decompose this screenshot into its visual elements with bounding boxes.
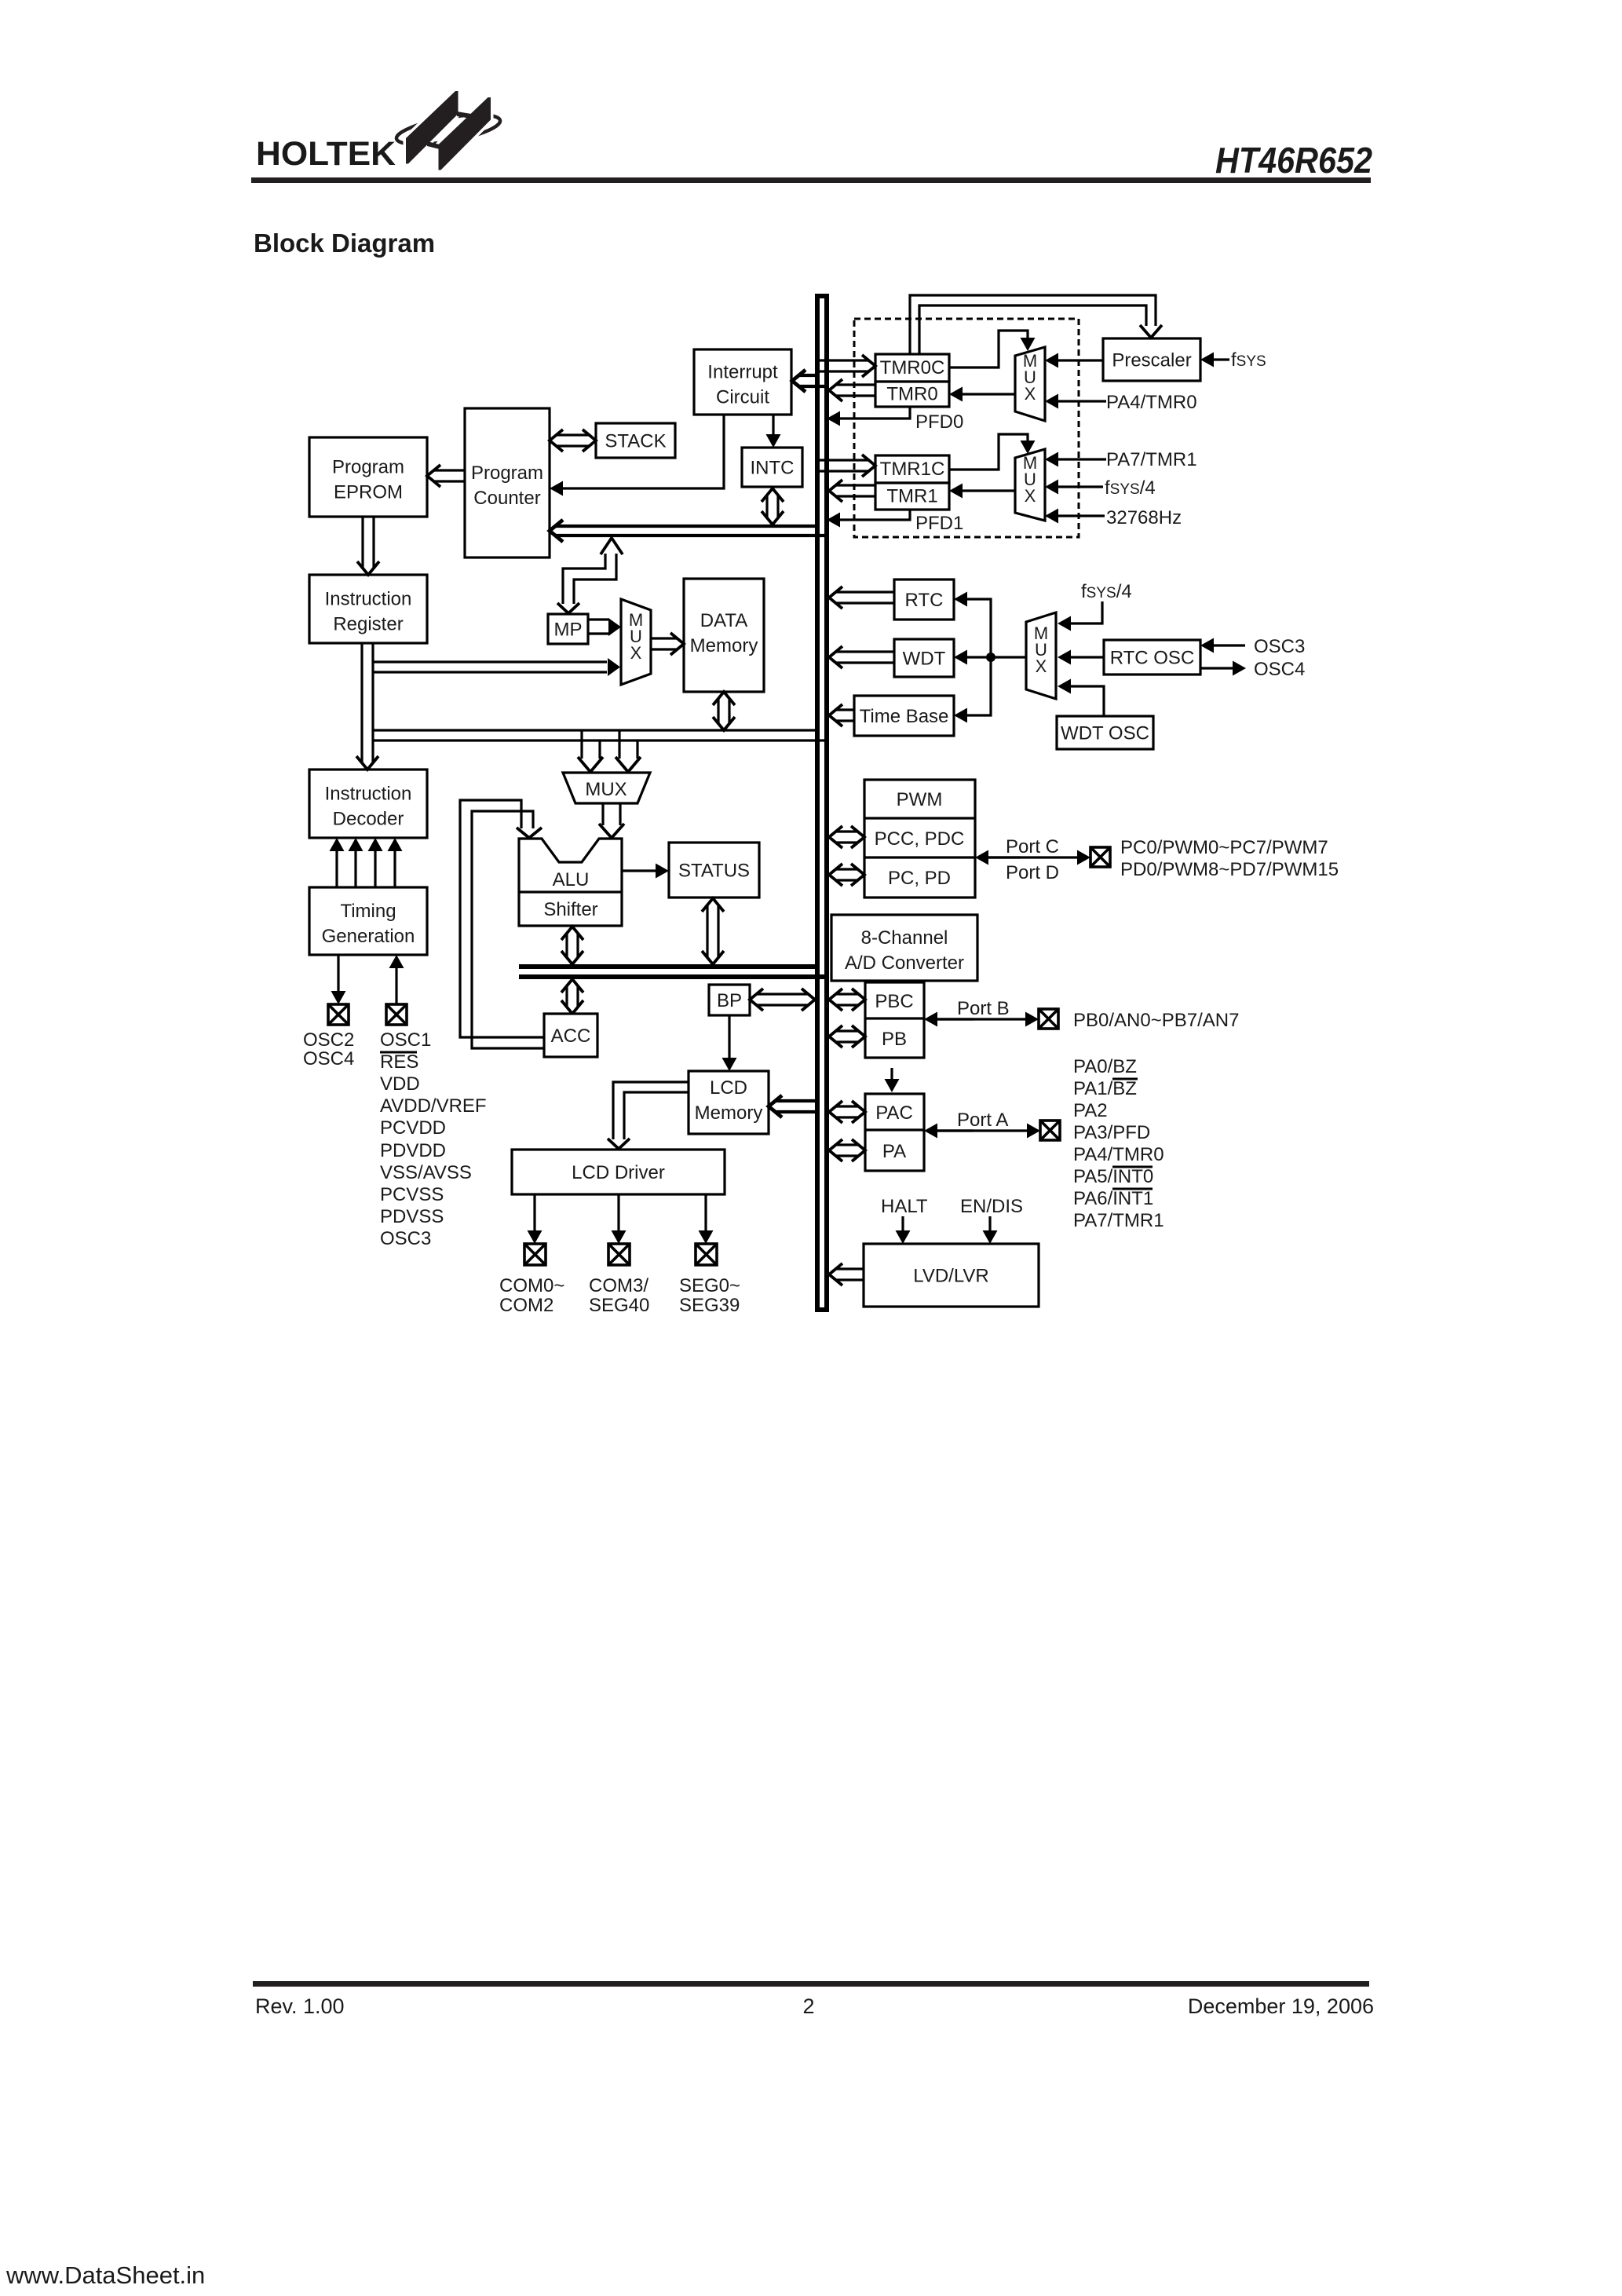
HOLTEK logo ellipse	[394, 109, 502, 151]
svg-text:Generation: Generation	[322, 926, 415, 947]
wire PFD0 to bus	[827, 407, 910, 426]
system bus top cap	[815, 294, 829, 298]
DATA Memory box	[684, 579, 764, 692]
Instruction Register box	[309, 575, 427, 643]
svg-text:PA6/INT1: PA6/INT1	[1073, 1188, 1153, 1209]
svg-text:ALU: ALU	[553, 869, 590, 890]
system bus bottom cap	[815, 1307, 829, 1312]
wire Timing Generation to Instruction Decoder 1	[330, 838, 345, 887]
wire MP to data MUX	[588, 618, 621, 636]
wire Interrupt Circuit to Program Counter	[550, 415, 724, 496]
svg-text:BP: BP	[717, 990, 742, 1011]
HOLTEK logo bolt 2	[439, 97, 491, 170]
svg-text:Program: Program	[332, 457, 404, 478]
svg-text:COM2: COM2	[499, 1295, 553, 1316]
svg-text:fSYS: fSYS	[1231, 349, 1266, 371]
wire RTC OSC to OSC4	[1200, 661, 1246, 676]
svg-text:Port A: Port A	[957, 1110, 1008, 1131]
wire branch riser to central MUX left input	[578, 731, 603, 772]
header rule	[251, 177, 1371, 183]
Timing Generation box	[309, 887, 427, 955]
svg-text:RTC OSC: RTC OSC	[1110, 648, 1195, 669]
svg-text:Timing: Timing	[340, 901, 396, 922]
TMR1 box	[875, 483, 949, 510]
wire PA4/TMR0 to timer MUX 1	[1045, 394, 1106, 409]
wire Program Counter to Program EPROM	[427, 465, 465, 487]
wire junction to Time Base	[954, 657, 991, 723]
svg-text:AVDD/VREF: AVDD/VREF	[380, 1095, 487, 1117]
TMR0 box	[875, 382, 949, 407]
wire Port A left head	[924, 1124, 974, 1139]
wire Port B left head	[924, 1012, 974, 1027]
wire bus to PB	[829, 1026, 865, 1047]
svg-text:PD0/PWM8~PD7/PWM15: PD0/PWM8~PD7/PWM15	[1120, 859, 1339, 880]
wire DATA Memory to bus line	[713, 692, 735, 730]
svg-text:PB: PB	[882, 1029, 907, 1050]
svg-text:Instruction: Instruction	[325, 589, 412, 610]
COM3 pin	[608, 1244, 630, 1265]
svg-text:Port C: Port C	[1006, 836, 1059, 857]
svg-text:PA7/TMR1: PA7/TMR1	[1106, 449, 1197, 470]
svg-text:RTC: RTC	[905, 590, 944, 611]
system bus vertical line left	[815, 296, 820, 1310]
STATUS box	[669, 843, 759, 898]
wire Timing Generation to Instruction Decoder 2	[349, 838, 363, 887]
svg-text:MP: MP	[554, 620, 583, 641]
wire central MUX to ALU	[599, 803, 624, 838]
central MUX trapezoid	[563, 773, 650, 803]
svg-text:Prescaler: Prescaler	[1112, 350, 1191, 371]
ACC box	[544, 1014, 597, 1057]
RTC OSC box	[1104, 640, 1200, 675]
svg-text:Instruction: Instruction	[325, 784, 412, 805]
timer MUX 2	[1015, 449, 1045, 521]
wire bus to PBC	[829, 989, 865, 1011]
wire instruction branch to bus upper	[373, 729, 820, 731]
svg-text:PB0/AN0~PB7/AN7: PB0/AN0~PB7/AN7	[1073, 1010, 1239, 1031]
wire 32768Hz to timer MUX 2	[1045, 509, 1105, 524]
svg-text:A/D Converter: A/D Converter	[845, 952, 964, 974]
svg-text:SEG40: SEG40	[589, 1295, 649, 1316]
svg-text:HALT: HALT	[881, 1196, 928, 1217]
svg-text:32768Hz: 32768Hz	[1106, 507, 1182, 528]
TMR0C box	[875, 354, 949, 382]
wire LCD Driver to SEG0 pin	[699, 1194, 714, 1244]
wire Program Counter to STACK	[550, 430, 596, 452]
svg-text:TMR1: TMR1	[886, 486, 937, 507]
svg-text:PC, PD: PC, PD	[888, 868, 951, 889]
wire Time Base to bus	[829, 704, 854, 726]
wire instruction branch arrowhead into data MUX	[608, 658, 620, 676]
wire LCD Driver to COM0 pin	[528, 1194, 542, 1244]
data bus horizontal line lower	[519, 974, 829, 979]
LVD/LVR box	[864, 1244, 1039, 1307]
overline for PA1/BZ	[1112, 1078, 1138, 1080]
svg-text:PA4/TMR0: PA4/TMR0	[1073, 1144, 1164, 1165]
wire data MUX to DATA Memory	[652, 633, 684, 655]
wire TMR0 to bus	[829, 379, 875, 401]
svg-text:PBC: PBC	[875, 991, 913, 1012]
wire LVD/LVR to bus	[829, 1263, 864, 1285]
svg-text:Counter: Counter	[473, 488, 540, 509]
svg-text:Port B: Port B	[957, 998, 1010, 1019]
SEG0 pin	[696, 1244, 717, 1265]
Interrupt Circuit box	[694, 349, 791, 415]
STACK box	[596, 423, 675, 458]
PWM PCC PDC PC PD stack box	[864, 780, 975, 898]
svg-text:INTC: INTC	[751, 458, 795, 479]
svg-text:PA1/BZ: PA1/BZ	[1073, 1078, 1137, 1099]
svg-text:EN/DIS: EN/DIS	[960, 1196, 1023, 1217]
wire Port B to pin	[937, 1012, 1039, 1027]
svg-text:PFD0: PFD0	[915, 411, 963, 433]
wire bus to LCD Memory	[769, 1095, 820, 1117]
svg-text:PDVDD: PDVDD	[380, 1140, 446, 1161]
Program Counter box	[465, 408, 550, 558]
wire HALT to LVD/LVR	[896, 1216, 911, 1244]
svg-text:Decoder: Decoder	[333, 809, 404, 830]
svg-text:PAC: PAC	[875, 1102, 913, 1124]
RTC box	[894, 579, 954, 620]
wire clock MUX output to junction	[991, 656, 1026, 658]
COM0 pin	[524, 1244, 546, 1265]
svg-text:STACK: STACK	[605, 431, 666, 452]
data memory MUX	[621, 599, 651, 685]
svg-text:SEG0~: SEG0~	[679, 1275, 740, 1296]
wire Program EPROM to Instruction Register	[357, 517, 379, 575]
svg-text:PDVSS: PDVSS	[380, 1206, 444, 1227]
svg-text:fSYS/4: fSYS/4	[1081, 581, 1132, 602]
BP box	[709, 985, 750, 1015]
svg-text:X: X	[1036, 656, 1047, 676]
Port A pin	[1040, 1121, 1060, 1140]
wire WDT OSC to clock MUX	[1058, 679, 1104, 717]
svg-text:PCC, PDC: PCC, PDC	[875, 828, 965, 850]
WDT OSC box	[1057, 716, 1153, 749]
wire Port C Port D left head	[975, 850, 1021, 865]
wire junction to WDT	[954, 650, 991, 665]
svg-text:RES: RES	[380, 1051, 418, 1073]
svg-text:PFD1: PFD1	[915, 513, 963, 534]
svg-text:PC0/PWM0~PC7/PWM7: PC0/PWM0~PC7/PWM7	[1120, 837, 1328, 858]
wire Timing Generation to OSC2 pin	[331, 955, 346, 1004]
wire fsys/4 to clock MUX	[1058, 601, 1102, 631]
wire OSC1 pin to Timing Generation	[389, 955, 404, 1004]
Prescaler box	[1103, 338, 1200, 381]
svg-text:LVD/LVR: LVD/LVR	[913, 1266, 988, 1287]
svg-text:TMR0C: TMR0C	[880, 357, 945, 378]
svg-text:ACC: ACC	[551, 1026, 591, 1047]
wire PB to PAC	[885, 1068, 900, 1092]
ALU and Shifter block	[519, 839, 622, 926]
svg-text:HT46R652: HT46R652	[1215, 140, 1372, 181]
Port C D pin	[1090, 847, 1110, 867]
wire bus to PAC	[829, 1101, 865, 1123]
svg-text:Block Diagram: Block Diagram	[254, 229, 435, 258]
system bus vertical line right	[824, 296, 829, 1310]
wire WDT to bus	[829, 646, 894, 668]
svg-text:X: X	[630, 643, 642, 663]
Port B pin	[1039, 1009, 1058, 1029]
PAC PA stack box	[865, 1094, 924, 1171]
wire Shifter to data bus	[561, 927, 583, 964]
wire timer MUX 1 to TMR0	[949, 387, 1015, 402]
Time Base box	[854, 696, 954, 736]
svg-text:OSC3: OSC3	[380, 1228, 431, 1249]
svg-text:X: X	[1025, 384, 1036, 404]
svg-text:2: 2	[802, 1994, 814, 2018]
wire instruction branch to data MUX upper	[373, 662, 607, 672]
overline for PA6/INT1	[1112, 1188, 1153, 1190]
HOLTEK logo bolt 1	[406, 91, 458, 164]
svg-text:Memory: Memory	[690, 635, 758, 656]
svg-text:LCD Driver: LCD Driver	[572, 1162, 665, 1183]
LCD Driver box	[512, 1150, 725, 1194]
wire TMR0C to timer MUX 1 select	[949, 331, 1036, 367]
svg-text:OSC3: OSC3	[1254, 636, 1305, 657]
svg-text:COM3/: COM3/	[589, 1275, 648, 1296]
clock MUX 3	[1026, 612, 1056, 699]
wire LCD Driver to COM3 pin	[612, 1194, 627, 1244]
wire ALU to STATUS	[622, 864, 669, 879]
OSC1 pin	[386, 1004, 407, 1025]
svg-text:PA2: PA2	[1073, 1100, 1108, 1121]
svg-text:Interrupt: Interrupt	[707, 362, 778, 383]
svg-text:OSC4: OSC4	[1254, 659, 1305, 680]
wire bus to PCC PDC	[829, 826, 864, 848]
HOLTEK logo bridge lower	[427, 141, 440, 149]
svg-text:STATUS: STATUS	[678, 861, 750, 882]
svg-text:VDD: VDD	[380, 1073, 420, 1095]
svg-text:Circuit: Circuit	[716, 387, 769, 408]
WDT box	[894, 639, 954, 677]
wire bus to Interrupt Circuit	[792, 370, 829, 392]
wire Interrupt Circuit to INTC	[766, 415, 781, 448]
PBC PB stack box	[865, 982, 924, 1058]
svg-text:Register: Register	[333, 614, 403, 635]
svg-text:Shifter: Shifter	[543, 899, 597, 920]
svg-text:PA0/BZ: PA0/BZ	[1073, 1056, 1137, 1077]
Program EPROM box	[309, 437, 427, 517]
svg-text:TMR0: TMR0	[886, 384, 937, 405]
svg-text:Program: Program	[471, 462, 543, 484]
svg-text:8-Channel: 8-Channel	[861, 927, 948, 949]
wire Timing Generation to Instruction Decoder 4	[388, 838, 403, 887]
LCD Memory box	[689, 1071, 769, 1134]
svg-text:OSC1: OSC1	[380, 1029, 431, 1051]
svg-text:www.DataSheet.in: www.DataSheet.in	[5, 2261, 205, 2289]
wire bus to PC PD	[829, 864, 864, 886]
wire ACC feedback loop to ALU	[460, 800, 544, 1048]
wire PFD1 to bus	[827, 510, 910, 528]
wire bus to TMR0C	[820, 355, 875, 377]
svg-text:Port D: Port D	[1006, 862, 1059, 883]
svg-text:fSYS/4: fSYS/4	[1105, 477, 1156, 499]
wire TMR1 to bus	[829, 480, 875, 502]
svg-text:Time Base: Time Base	[860, 706, 949, 727]
svg-text:DATA: DATA	[700, 610, 747, 631]
svg-text:OSC2: OSC2	[303, 1029, 354, 1051]
OSC2 pin	[328, 1004, 349, 1025]
svg-text:OSC4: OSC4	[303, 1048, 354, 1069]
svg-text:PA3/PFD: PA3/PFD	[1073, 1122, 1150, 1143]
MP box	[548, 614, 588, 644]
svg-text:PA4/TMR0: PA4/TMR0	[1106, 392, 1197, 413]
svg-text:Rev. 1.00: Rev. 1.00	[255, 1994, 345, 2018]
wire INTC to bus line	[762, 488, 784, 525]
svg-text:WDT OSC: WDT OSC	[1061, 723, 1149, 744]
wire PC line to MP	[557, 538, 623, 613]
wire Port C Port D to pin	[988, 850, 1090, 865]
wire junction to RTC	[954, 592, 991, 658]
overline for PA5/INT0	[1112, 1166, 1153, 1168]
Instruction Decoder box	[309, 770, 427, 838]
wire data bus to ACC	[561, 979, 583, 1014]
svg-text:December 19, 2006: December 19, 2006	[1188, 1994, 1374, 2018]
wire bus line riser to central MUX right input	[616, 731, 641, 772]
svg-text:SEG39: SEG39	[679, 1295, 740, 1316]
svg-text:PA: PA	[882, 1141, 906, 1162]
wire TMR1C to timer MUX 2 select	[949, 434, 1036, 470]
wire bus to TMR1C	[820, 455, 875, 477]
wire PA7/TMR1 to timer MUX 2	[1045, 452, 1106, 467]
TMR1C box	[875, 455, 949, 483]
svg-text:VSS/AVSS: VSS/AVSS	[380, 1162, 472, 1183]
svg-text:PA5/INT0: PA5/INT0	[1073, 1166, 1153, 1187]
HOLTEK logo bridge upper	[457, 112, 471, 119]
footer rule	[253, 1981, 1369, 1987]
data bus horizontal line upper	[519, 964, 820, 969]
8-Channel A/D Converter box	[831, 915, 977, 981]
svg-text:Memory: Memory	[695, 1102, 763, 1124]
svg-text:COM0~: COM0~	[499, 1275, 564, 1296]
wire RTC OSC to clock MUX	[1058, 650, 1104, 665]
svg-text:EPROM: EPROM	[334, 482, 403, 503]
INTC box	[742, 448, 802, 487]
wire BP to LCD Memory	[722, 1015, 737, 1071]
wire STATUS to data bus	[702, 898, 724, 964]
svg-text:TMR1C: TMR1C	[880, 459, 945, 480]
wire TMR0C top to Prescaler	[910, 295, 1162, 354]
svg-text:X: X	[1025, 486, 1036, 506]
RES overline	[380, 1051, 417, 1054]
svg-text:MUX: MUX	[585, 779, 627, 800]
junction dot clock	[986, 653, 995, 662]
wire fsys to Prescaler	[1200, 353, 1229, 367]
timer group dashed box	[854, 319, 1079, 537]
svg-text:PA7/TMR1: PA7/TMR1	[1073, 1210, 1164, 1231]
wire Prescaler to timer MUX 1	[1045, 353, 1103, 368]
svg-text:HOLTEK: HOLTEK	[256, 135, 396, 173]
wire LCD Memory to LCD Driver	[608, 1082, 689, 1149]
svg-text:PCVSS: PCVSS	[380, 1184, 444, 1205]
wire timer MUX 2 to TMR1	[949, 484, 1015, 499]
wire OSC3 to RTC OSC	[1200, 638, 1245, 653]
wire bus to Program Counter	[550, 520, 829, 542]
svg-text:PCVDD: PCVDD	[380, 1117, 446, 1139]
wire Timing Generation to Instruction Decoder 3	[368, 838, 383, 887]
wire EN/DIS to LVD/LVR	[983, 1216, 998, 1244]
wire Instruction Register to Instruction Decoder	[356, 643, 378, 770]
wire BP to bus	[750, 989, 815, 1011]
wire RTC to bus	[829, 587, 894, 609]
svg-text:WDT: WDT	[903, 649, 946, 670]
wire bus to PA	[829, 1139, 865, 1161]
svg-text:LCD: LCD	[710, 1077, 747, 1099]
timer MUX 1	[1015, 347, 1045, 421]
wire Port A to pin	[937, 1124, 1040, 1139]
wire instruction branch to bus lower	[373, 739, 829, 741]
wire fsys/4 to timer MUX 2	[1045, 480, 1103, 495]
svg-text:PWM: PWM	[897, 789, 943, 810]
